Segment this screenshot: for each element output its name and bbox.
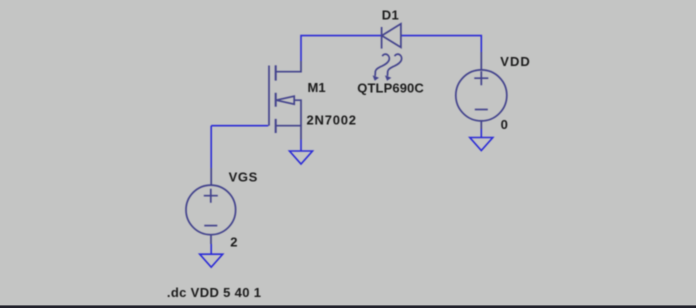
wire gate horizontal	[211, 125, 268, 127]
ground VGS	[200, 254, 223, 267]
voltage source VDD circle	[456, 70, 507, 121]
transistor M1 body lead	[294, 100, 301, 126]
wire source to ground	[300, 140, 302, 152]
voltage source VGS circle	[186, 185, 236, 235]
wire drain-to-diode top	[301, 36, 381, 61]
VGS plus sign	[204, 189, 218, 203]
svg-text:D1: D1	[382, 8, 399, 23]
transistor M1 body arrow	[276, 96, 294, 104]
LED arrow 2	[385, 54, 402, 81]
transistor M1 drain lead	[276, 61, 301, 72]
transistor M1 channel bar bottom	[275, 119, 277, 133]
svg-text:QTLP690C: QTLP690C	[357, 80, 424, 95]
svg-text:M1: M1	[308, 80, 326, 95]
svg-text:2: 2	[230, 235, 237, 250]
VDD plus sign	[474, 71, 488, 85]
transistor M1 source lead	[276, 126, 301, 140]
svg-text:VGS: VGS	[229, 170, 258, 185]
diode D1 cathode bar	[381, 27, 383, 49]
wire VGS plus lead vertical	[210, 126, 212, 168]
ground M1 source	[290, 151, 313, 164]
transistor M1 gate line	[268, 66, 270, 126]
bottom dark bar	[0, 305, 696, 308]
VDD lead top	[480, 52, 482, 70]
VGS lead top	[210, 168, 212, 185]
wire VDD minus to ground	[480, 129, 482, 138]
svg-text:VDD: VDD	[500, 54, 530, 69]
svg-text:0: 0	[501, 117, 508, 132]
LED arrow 1	[373, 54, 390, 81]
ground VDD	[470, 138, 493, 151]
diode D1 triangle	[382, 24, 401, 48]
transistor M1 channel bar middle	[275, 93, 277, 107]
VGS lead bottom	[210, 235, 212, 244]
wire diode-to-VDD top	[401, 36, 481, 52]
svg-text:2N7002: 2N7002	[307, 113, 357, 128]
wire VGS minus to ground	[210, 244, 212, 254]
transistor M1 channel bar top	[275, 65, 277, 80]
VGS minus sign	[204, 225, 217, 227]
VDD minus sign	[475, 109, 488, 111]
svg-text:.dc VDD 5 40 1: .dc VDD 5 40 1	[167, 285, 262, 300]
VDD lead bottom	[480, 121, 482, 129]
